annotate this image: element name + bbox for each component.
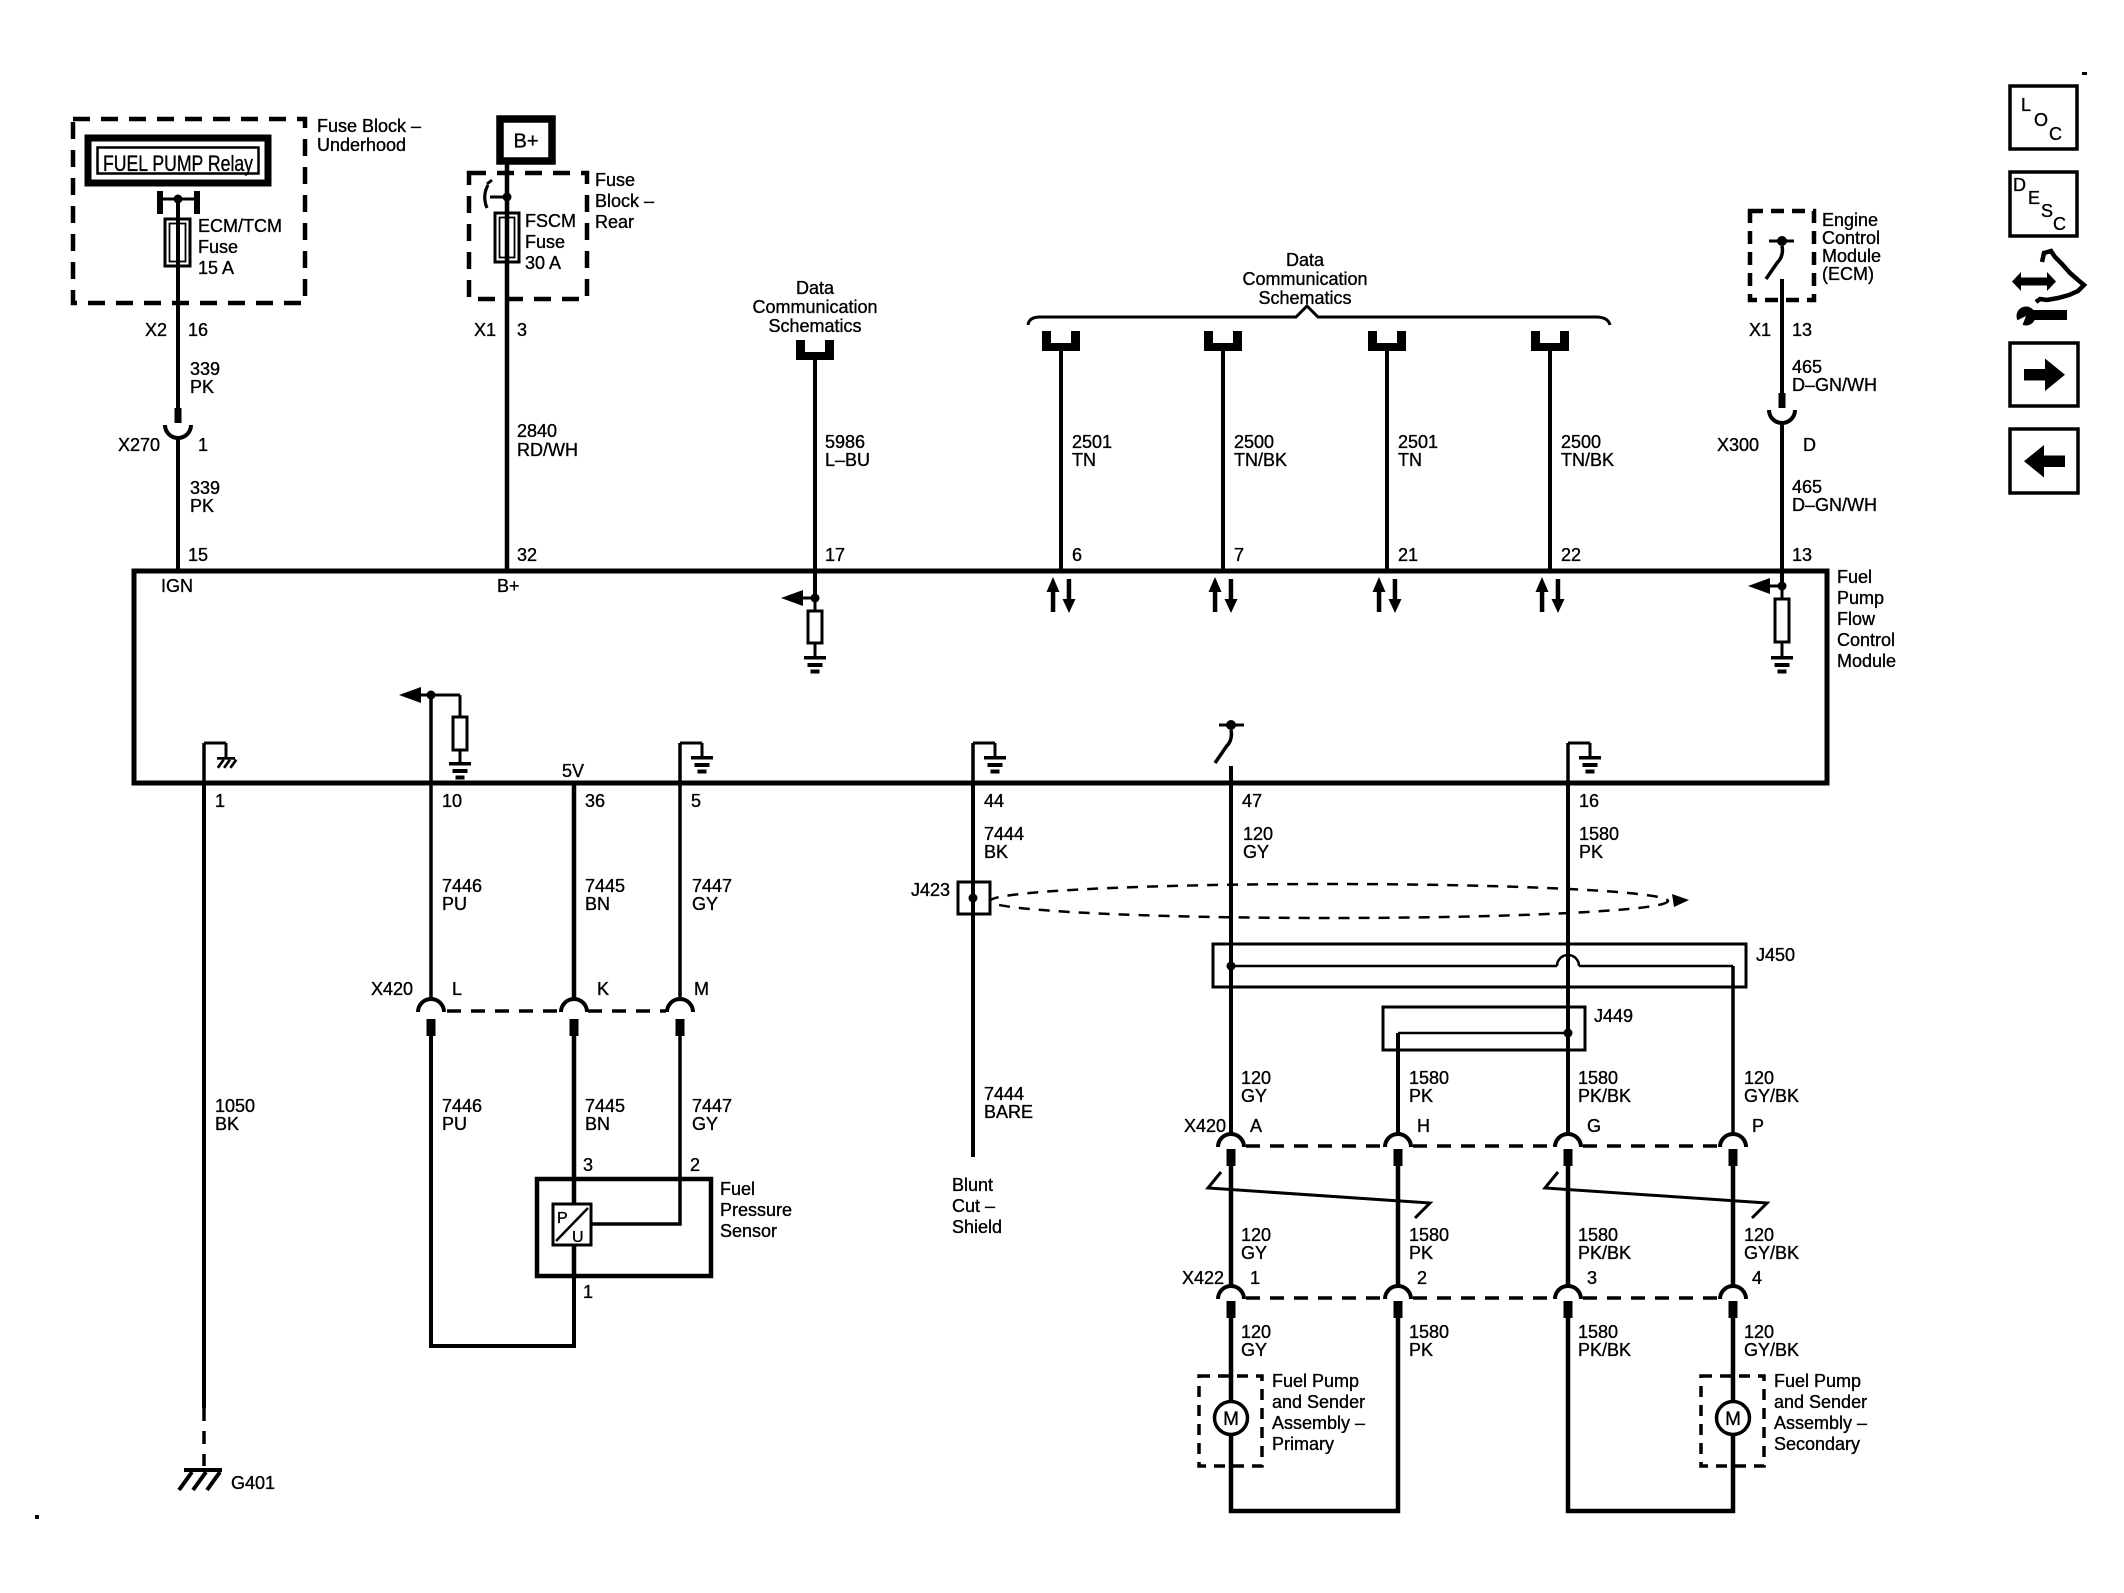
wire 7446 PU pin 10 to X420 L bbox=[429, 783, 433, 999]
fuel pump flow control module box bbox=[134, 571, 1827, 783]
svg-text:X1: X1 bbox=[1749, 320, 1771, 340]
fuse F2 FSCM Fuse 30 A bbox=[495, 213, 519, 262]
svg-text:ECM/TCM: ECM/TCM bbox=[198, 216, 282, 236]
wire 7445 BN pin 36 to X420 K bbox=[572, 783, 577, 999]
svg-text:3: 3 bbox=[1587, 1268, 1597, 1288]
svg-text:PU: PU bbox=[442, 894, 467, 914]
svg-text:Control: Control bbox=[1837, 630, 1895, 650]
svg-text:BN: BN bbox=[585, 894, 610, 914]
svg-text:O: O bbox=[2034, 110, 2048, 130]
svg-text:X1: X1 bbox=[474, 320, 496, 340]
internal ground (pin 44) bbox=[971, 743, 975, 783]
svg-text:G401: G401 bbox=[231, 1473, 275, 1493]
svg-text:Fuel: Fuel bbox=[720, 1179, 755, 1199]
svg-text:2: 2 bbox=[690, 1155, 700, 1175]
svg-text:120: 120 bbox=[1241, 1225, 1271, 1245]
fuse F1 ECM/TCM Fuse 15 A bbox=[165, 219, 190, 266]
motor M primary bbox=[1215, 1402, 1248, 1435]
connector X420 dashed link bbox=[1246, 1144, 1385, 1148]
svg-text:2500: 2500 bbox=[1234, 432, 1274, 452]
svg-text:J449: J449 bbox=[1594, 1006, 1633, 1026]
svg-text:X300: X300 bbox=[1717, 435, 1759, 455]
bidirectional data arrows (pin 22) bbox=[1536, 577, 1549, 592]
wire X422 1 to primary pump bbox=[1229, 1318, 1234, 1402]
svg-text:Secondary: Secondary bbox=[1774, 1434, 1860, 1454]
svg-text:GY/BK: GY/BK bbox=[1744, 1340, 1799, 1360]
wire 7444 BK pin 44 to splice J423 bbox=[971, 783, 975, 916]
svg-text:BARE: BARE bbox=[984, 1102, 1033, 1122]
wire 120 GY/BK J450 to X420 P bbox=[1731, 966, 1735, 1134]
internal wire to pin 10 bbox=[429, 695, 433, 783]
connector X270 pin 1 (inline) bbox=[175, 408, 182, 423]
svg-text:X420: X420 bbox=[371, 979, 413, 999]
shield indicator dashed ellipse bbox=[990, 884, 1668, 918]
svg-text:J450: J450 bbox=[1756, 945, 1795, 965]
svg-text:and Sender: and Sender bbox=[1272, 1392, 1365, 1412]
internal resistor (pin 17) bbox=[814, 598, 817, 611]
svg-text:C: C bbox=[2053, 214, 2066, 234]
wire 7447 GY pin 5 to X420 M bbox=[678, 783, 682, 999]
svg-text:6: 6 bbox=[1072, 545, 1082, 565]
svg-text:GY: GY bbox=[1243, 842, 1269, 862]
off-page connector bracket (pin 7) bbox=[1204, 331, 1213, 350]
bidirectional data arrows (pin 7) bbox=[1209, 577, 1222, 592]
svg-text:120: 120 bbox=[1744, 1068, 1774, 1088]
splice pack J450 box bbox=[1213, 944, 1746, 987]
svg-text:32: 32 bbox=[517, 545, 537, 565]
icon reverse-trace (double arrow, outline, wrench) bbox=[2012, 272, 2056, 291]
svg-text:S: S bbox=[2041, 201, 2053, 221]
svg-text:Fuel: Fuel bbox=[1837, 567, 1872, 587]
svg-text:TN/BK: TN/BK bbox=[1561, 450, 1614, 470]
bidirectional data arrows (pin 6) bbox=[1047, 577, 1060, 592]
svg-text:X270: X270 bbox=[118, 435, 160, 455]
svg-text:Module: Module bbox=[1837, 651, 1896, 671]
svg-text:PK/BK: PK/BK bbox=[1578, 1340, 1631, 1360]
svg-text:M: M bbox=[1725, 1409, 1741, 1430]
svg-text:21: 21 bbox=[1398, 545, 1418, 565]
wire 339 PK from relay through fuse to connector X270 bbox=[176, 199, 180, 408]
svg-text:M: M bbox=[694, 979, 709, 999]
svg-text:(ECM): (ECM) bbox=[1822, 264, 1874, 284]
splice J423 bbox=[958, 882, 990, 914]
svg-text:7447: 7447 bbox=[692, 1096, 732, 1116]
svg-text:BN: BN bbox=[585, 1114, 610, 1134]
svg-text:47: 47 bbox=[1242, 791, 1262, 811]
svg-text:120: 120 bbox=[1744, 1322, 1774, 1342]
internal switch (pin 47) bbox=[1219, 724, 1244, 727]
svg-text:L: L bbox=[2021, 95, 2031, 115]
internal bus transceiver node (pin 13) bbox=[1780, 571, 1784, 586]
svg-text:1050: 1050 bbox=[215, 1096, 255, 1116]
wire X422 3 to secondary pump loop bbox=[1568, 1318, 1733, 1511]
internal chassis ground (pin 1) bbox=[202, 743, 206, 783]
svg-text:1: 1 bbox=[215, 791, 225, 811]
icon back arrow box bbox=[2010, 429, 2078, 493]
svg-text:1: 1 bbox=[198, 435, 208, 455]
svg-text:7446: 7446 bbox=[442, 876, 482, 896]
wire 1050 BK from pin 1 bbox=[202, 783, 206, 1408]
wire 1580 PK X420 H to X422 2 bbox=[1396, 1166, 1401, 1287]
svg-text:PK/BK: PK/BK bbox=[1578, 1243, 1631, 1263]
svg-text:Fuse: Fuse bbox=[525, 232, 565, 252]
svg-text:4: 4 bbox=[1752, 1268, 1762, 1288]
svg-text:2840: 2840 bbox=[517, 421, 557, 441]
svg-text:7445: 7445 bbox=[585, 1096, 625, 1116]
svg-text:7445: 7445 bbox=[585, 876, 625, 896]
svg-text:2: 2 bbox=[1417, 1268, 1427, 1288]
svg-text:Primary: Primary bbox=[1272, 1434, 1334, 1454]
svg-text:5986: 5986 bbox=[825, 432, 865, 452]
off-page connector bracket (pin 6) bbox=[1042, 331, 1051, 350]
wire 120 GY/BK X420 P to X422 4 bbox=[1731, 1166, 1736, 1287]
connector X422 dashed link bbox=[1246, 1296, 1385, 1300]
svg-text:PK: PK bbox=[190, 496, 214, 516]
svg-text:L: L bbox=[452, 979, 462, 999]
svg-text:15: 15 bbox=[188, 545, 208, 565]
svg-text:D–GN/WH: D–GN/WH bbox=[1792, 375, 1877, 395]
icon LOC box bbox=[2010, 86, 2077, 149]
svg-text:339: 339 bbox=[190, 478, 220, 498]
svg-text:7447: 7447 bbox=[692, 876, 732, 896]
svg-text:7: 7 bbox=[1234, 545, 1244, 565]
svg-text:120: 120 bbox=[1241, 1322, 1271, 1342]
svg-text:2501: 2501 bbox=[1072, 432, 1112, 452]
svg-text:Communication: Communication bbox=[1242, 269, 1367, 289]
svg-text:PK: PK bbox=[1409, 1340, 1433, 1360]
svg-text:15 A: 15 A bbox=[198, 258, 234, 278]
fuse block - underhood (dashed box) bbox=[73, 119, 305, 303]
svg-text:44: 44 bbox=[984, 791, 1004, 811]
brace over data bus wires bbox=[1028, 306, 1610, 325]
svg-text:FUEL PUMP Relay: FUEL PUMP Relay bbox=[103, 151, 253, 176]
svg-text:J423: J423 bbox=[911, 880, 950, 900]
svg-text:Data: Data bbox=[796, 278, 835, 298]
stray mark top right bbox=[2082, 72, 2087, 75]
internal bus transceiver node (pin 17) bbox=[813, 571, 817, 598]
connector X300 pin D (inline) bbox=[1779, 393, 1786, 408]
svg-text:120: 120 bbox=[1744, 1225, 1774, 1245]
fuel pressure sensor B47 box bbox=[537, 1179, 711, 1276]
wire 1580 PK pin 16 to X420 G bbox=[1566, 783, 1570, 1134]
off-page connector bracket (pin 22) bbox=[1531, 331, 1540, 350]
wire 7447 GY X420 M to sensor pin 2 bbox=[591, 1036, 680, 1224]
svg-text:B+: B+ bbox=[513, 131, 538, 153]
svg-text:GY/BK: GY/BK bbox=[1744, 1086, 1799, 1106]
svg-text:120: 120 bbox=[1243, 824, 1273, 844]
wire 1580 PK/BK X420 G to X422 3 bbox=[1566, 1166, 1571, 1287]
svg-text:TN: TN bbox=[1398, 450, 1422, 470]
svg-text:22: 22 bbox=[1561, 545, 1581, 565]
circuit breaker contact symbol bbox=[490, 196, 507, 199]
relay K (FUEL PUMP Relay) box bbox=[88, 138, 268, 183]
wire primary pump return loop to X422 2 bbox=[1231, 1318, 1398, 1511]
svg-text:7444: 7444 bbox=[984, 1084, 1024, 1104]
splice J449 junction and branch wire bbox=[1398, 1032, 1568, 1035]
connector X420 dashed link bbox=[447, 1009, 560, 1013]
svg-text:1580: 1580 bbox=[1409, 1225, 1449, 1245]
svg-text:PK/BK: PK/BK bbox=[1578, 1086, 1631, 1106]
svg-text:M: M bbox=[1223, 1409, 1239, 1430]
wire 339 PK from X270 to module pin 15 bbox=[176, 438, 180, 572]
alignment mark right (G-P) bbox=[1545, 1172, 1767, 1218]
svg-text:BK: BK bbox=[984, 842, 1008, 862]
fuel pump primary dashed box bbox=[1199, 1376, 1262, 1466]
svg-text:GY: GY bbox=[1241, 1086, 1267, 1106]
svg-text:PK: PK bbox=[1409, 1243, 1433, 1263]
svg-text:36: 36 bbox=[585, 791, 605, 811]
icon DESC box bbox=[2010, 172, 2077, 236]
svg-text:RD/WH: RD/WH bbox=[517, 440, 578, 460]
wire 5986 L-BU to module pin 17 bbox=[813, 359, 817, 571]
ECM output driver switch symbol bbox=[1769, 240, 1794, 243]
wire 120 GY X420 A to X422 1 bbox=[1229, 1166, 1234, 1287]
svg-text:and Sender: and Sender bbox=[1774, 1392, 1867, 1412]
svg-text:P: P bbox=[1752, 1116, 1764, 1136]
svg-text:17: 17 bbox=[825, 545, 845, 565]
fuel pump secondary dashed box bbox=[1701, 1376, 1764, 1466]
svg-text:Fuel Pump: Fuel Pump bbox=[1272, 1371, 1359, 1391]
svg-text:E: E bbox=[2028, 188, 2040, 208]
wire 7444 BARE splice to blunt cut bbox=[971, 914, 975, 1157]
svg-text:IGN: IGN bbox=[161, 576, 193, 596]
wire 2500 TN/BK to module pin 7 bbox=[1221, 350, 1225, 571]
svg-text:2501: 2501 bbox=[1398, 432, 1438, 452]
wire 2500 TN/BK to module pin 22 bbox=[1548, 350, 1552, 571]
svg-text:7446: 7446 bbox=[442, 1096, 482, 1116]
svg-text:Fuel Pump: Fuel Pump bbox=[1774, 1371, 1861, 1391]
fuse block - rear (dashed box) bbox=[469, 173, 587, 299]
svg-text:PK: PK bbox=[1409, 1086, 1433, 1106]
sensor transducer P/U element bbox=[553, 1204, 591, 1245]
svg-text:D: D bbox=[1803, 435, 1816, 455]
svg-text:U: U bbox=[572, 1229, 584, 1246]
bidirectional data arrows (pin 21) bbox=[1373, 577, 1386, 592]
svg-text:Fuse: Fuse bbox=[595, 170, 635, 190]
svg-text:GY: GY bbox=[1241, 1243, 1267, 1263]
svg-text:TN/BK: TN/BK bbox=[1234, 450, 1287, 470]
internal 5V pull-up node (pin 10) bbox=[399, 687, 421, 703]
svg-text:Shield: Shield bbox=[952, 1217, 1002, 1237]
wire 2501 TN to module pin 21 bbox=[1385, 350, 1389, 571]
svg-text:1580: 1580 bbox=[1579, 824, 1619, 844]
wire 2501 TN to module pin 6 bbox=[1059, 350, 1063, 571]
svg-text:1: 1 bbox=[583, 1282, 593, 1302]
svg-text:BK: BK bbox=[215, 1114, 239, 1134]
svg-text:30 A: 30 A bbox=[525, 253, 561, 273]
svg-text:Blunt: Blunt bbox=[952, 1175, 993, 1195]
svg-text:1: 1 bbox=[1250, 1268, 1260, 1288]
ground G401 bbox=[184, 1468, 222, 1472]
svg-text:465: 465 bbox=[1792, 357, 1822, 377]
svg-text:K: K bbox=[597, 979, 609, 999]
wire 7446 PU X420 L to sensor pin 1 loop bbox=[431, 1036, 574, 1346]
svg-text:1580: 1580 bbox=[1578, 1322, 1618, 1342]
svg-text:Sensor: Sensor bbox=[720, 1221, 777, 1241]
svg-text:X420: X420 bbox=[1184, 1116, 1226, 1136]
svg-text:Pressure: Pressure bbox=[720, 1200, 792, 1220]
svg-text:TN: TN bbox=[1072, 450, 1096, 470]
svg-text:Underhood: Underhood bbox=[317, 135, 406, 155]
svg-text:Block –: Block – bbox=[595, 191, 654, 211]
off-page connector bracket bbox=[796, 340, 834, 360]
off-page connector bracket (pin 21) bbox=[1368, 331, 1377, 350]
svg-text:10: 10 bbox=[442, 791, 462, 811]
svg-text:7444: 7444 bbox=[984, 824, 1024, 844]
wire 2840 RD/WH from B+ to module pin 32 bbox=[505, 161, 510, 571]
svg-text:Communication: Communication bbox=[752, 297, 877, 317]
svg-text:Module: Module bbox=[1822, 246, 1881, 266]
svg-text:16: 16 bbox=[188, 320, 208, 340]
svg-text:GY: GY bbox=[1241, 1340, 1267, 1360]
icon forward arrow box bbox=[2010, 343, 2078, 406]
svg-text:3: 3 bbox=[583, 1155, 593, 1175]
internal ground (pin 5) bbox=[678, 743, 682, 783]
svg-text:X422: X422 bbox=[1182, 1268, 1224, 1288]
svg-text:A: A bbox=[1250, 1116, 1262, 1136]
wire X422 4 to secondary pump bbox=[1731, 1318, 1736, 1402]
svg-text:X2: X2 bbox=[145, 320, 167, 340]
svg-text:120: 120 bbox=[1241, 1068, 1271, 1088]
svg-text:339: 339 bbox=[190, 359, 220, 379]
svg-text:3: 3 bbox=[517, 320, 527, 340]
svg-text:1580: 1580 bbox=[1578, 1068, 1618, 1088]
svg-text:PU: PU bbox=[442, 1114, 467, 1134]
svg-text:Data: Data bbox=[1286, 250, 1325, 270]
internal resistor (pin 13) bbox=[1781, 586, 1784, 599]
svg-text:Schematics: Schematics bbox=[768, 316, 861, 336]
engine control module ECM (dashed box) bbox=[1750, 211, 1814, 300]
svg-text:D: D bbox=[2013, 175, 2026, 195]
relay contact symbol bbox=[157, 191, 163, 214]
svg-text:Control: Control bbox=[1822, 228, 1880, 248]
svg-text:B+: B+ bbox=[497, 576, 520, 596]
splice pack J449 box bbox=[1383, 1007, 1585, 1050]
svg-text:1580: 1580 bbox=[1409, 1322, 1449, 1342]
svg-text:Fuse: Fuse bbox=[198, 237, 238, 257]
splice J450 junction and branch wire bbox=[1227, 962, 1236, 971]
svg-text:H: H bbox=[1417, 1116, 1430, 1136]
svg-text:Assembly –: Assembly – bbox=[1774, 1413, 1867, 1433]
wire 120 GY pin 47 to X420 A bbox=[1229, 783, 1233, 1134]
svg-text:P: P bbox=[557, 1210, 568, 1227]
svg-text:5: 5 bbox=[691, 791, 701, 811]
internal ground (pin 10) bbox=[459, 750, 462, 762]
svg-text:C: C bbox=[2049, 124, 2062, 144]
svg-text:Rear: Rear bbox=[595, 212, 634, 232]
svg-text:GY: GY bbox=[692, 1114, 718, 1134]
internal resistor (pin 10) bbox=[459, 695, 462, 717]
svg-text:L–BU: L–BU bbox=[825, 450, 870, 470]
svg-text:Fuse Block –: Fuse Block – bbox=[317, 116, 421, 136]
svg-text:465: 465 bbox=[1792, 477, 1822, 497]
wire 7445 BN X420 K to sensor pin 3 bbox=[572, 1036, 577, 1276]
svg-text:PK: PK bbox=[1579, 842, 1603, 862]
motor M secondary bbox=[1717, 1402, 1750, 1435]
svg-text:Pump: Pump bbox=[1837, 588, 1884, 608]
svg-text:13: 13 bbox=[1792, 545, 1812, 565]
svg-text:D–GN/WH: D–GN/WH bbox=[1792, 495, 1877, 515]
svg-text:1580: 1580 bbox=[1409, 1068, 1449, 1088]
stray mark bottom left bbox=[35, 1515, 39, 1519]
wire 465 D-GN/WH from X300 to module pin 13 bbox=[1780, 423, 1784, 572]
svg-text:GY: GY bbox=[692, 894, 718, 914]
internal ground (pin 16) bbox=[1566, 743, 1570, 783]
svg-text:1580: 1580 bbox=[1578, 1225, 1618, 1245]
svg-text:Assembly –: Assembly – bbox=[1272, 1413, 1365, 1433]
svg-text:2500: 2500 bbox=[1561, 432, 1601, 452]
internal ground (pin 13) bbox=[1781, 642, 1784, 656]
wire 1580 PK J449 to X420 H bbox=[1396, 1033, 1400, 1134]
power feed B+ box bbox=[500, 119, 552, 161]
svg-text:PK: PK bbox=[190, 377, 214, 397]
svg-text:GY/BK: GY/BK bbox=[1744, 1243, 1799, 1263]
internal ground (pin 17) bbox=[814, 643, 817, 656]
svg-text:Engine: Engine bbox=[1822, 210, 1878, 230]
svg-text:Schematics: Schematics bbox=[1258, 288, 1351, 308]
svg-text:16: 16 bbox=[1579, 791, 1599, 811]
svg-text:G: G bbox=[1587, 1116, 1601, 1136]
svg-text:Flow: Flow bbox=[1837, 609, 1876, 629]
svg-text:5V: 5V bbox=[562, 761, 584, 781]
wire 465 D-GN/WH from ECM to connector X300 bbox=[1780, 279, 1784, 393]
svg-text:FSCM: FSCM bbox=[525, 211, 576, 231]
svg-text:13: 13 bbox=[1792, 320, 1812, 340]
svg-text:Cut –: Cut – bbox=[952, 1196, 995, 1216]
alignment mark left (A-H) bbox=[1208, 1172, 1430, 1218]
